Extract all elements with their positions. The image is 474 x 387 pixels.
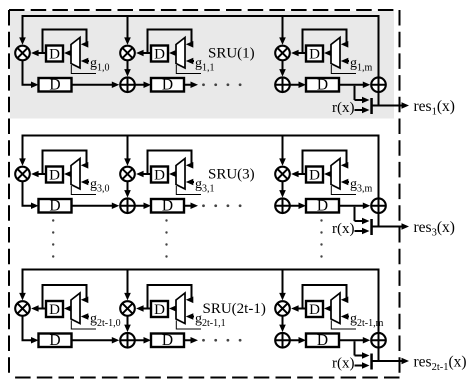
- svg-text:D: D: [49, 47, 60, 63]
- svg-text:D: D: [162, 77, 173, 94]
- svg-text:D: D: [49, 168, 60, 184]
- svg-text:D: D: [317, 332, 328, 349]
- svg-text:D: D: [317, 198, 328, 215]
- svg-text:D: D: [154, 47, 165, 63]
- svg-text:D: D: [49, 302, 60, 318]
- svg-text:D: D: [309, 47, 320, 63]
- svg-text:SRU(2t-1): SRU(2t-1): [203, 301, 266, 317]
- svg-text:D: D: [309, 302, 320, 318]
- svg-text:D: D: [162, 198, 173, 215]
- svg-text:D: D: [162, 332, 173, 349]
- svg-text:r(x): r(x): [332, 100, 355, 116]
- svg-text:r(x): r(x): [332, 221, 355, 237]
- svg-text:D: D: [49, 332, 60, 349]
- svg-text:D: D: [154, 302, 165, 318]
- svg-text:D: D: [309, 168, 320, 184]
- svg-text:D: D: [49, 77, 60, 94]
- svg-text:SRU(3): SRU(3): [208, 167, 255, 183]
- svg-text:D: D: [317, 77, 328, 94]
- svg-text:D: D: [154, 168, 165, 184]
- svg-text:D: D: [49, 198, 60, 215]
- svg-text:r(x): r(x): [332, 356, 355, 372]
- svg-text:SRU(1): SRU(1): [208, 46, 255, 62]
